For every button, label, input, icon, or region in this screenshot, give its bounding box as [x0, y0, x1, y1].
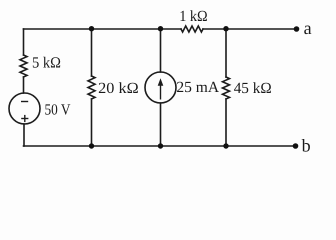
svg-text:25 mA: 25 mA [176, 79, 220, 96]
svg-text:b: b [302, 136, 311, 154]
svg-text:5 kΩ: 5 kΩ [32, 55, 61, 72]
svg-text:20 kΩ: 20 kΩ [98, 80, 139, 97]
svg-text:1 kΩ: 1 kΩ [179, 8, 208, 25]
svg-text:50 V: 50 V [45, 101, 72, 118]
svg-text:45 kΩ: 45 kΩ [234, 80, 272, 97]
svg-text:a: a [304, 18, 312, 38]
